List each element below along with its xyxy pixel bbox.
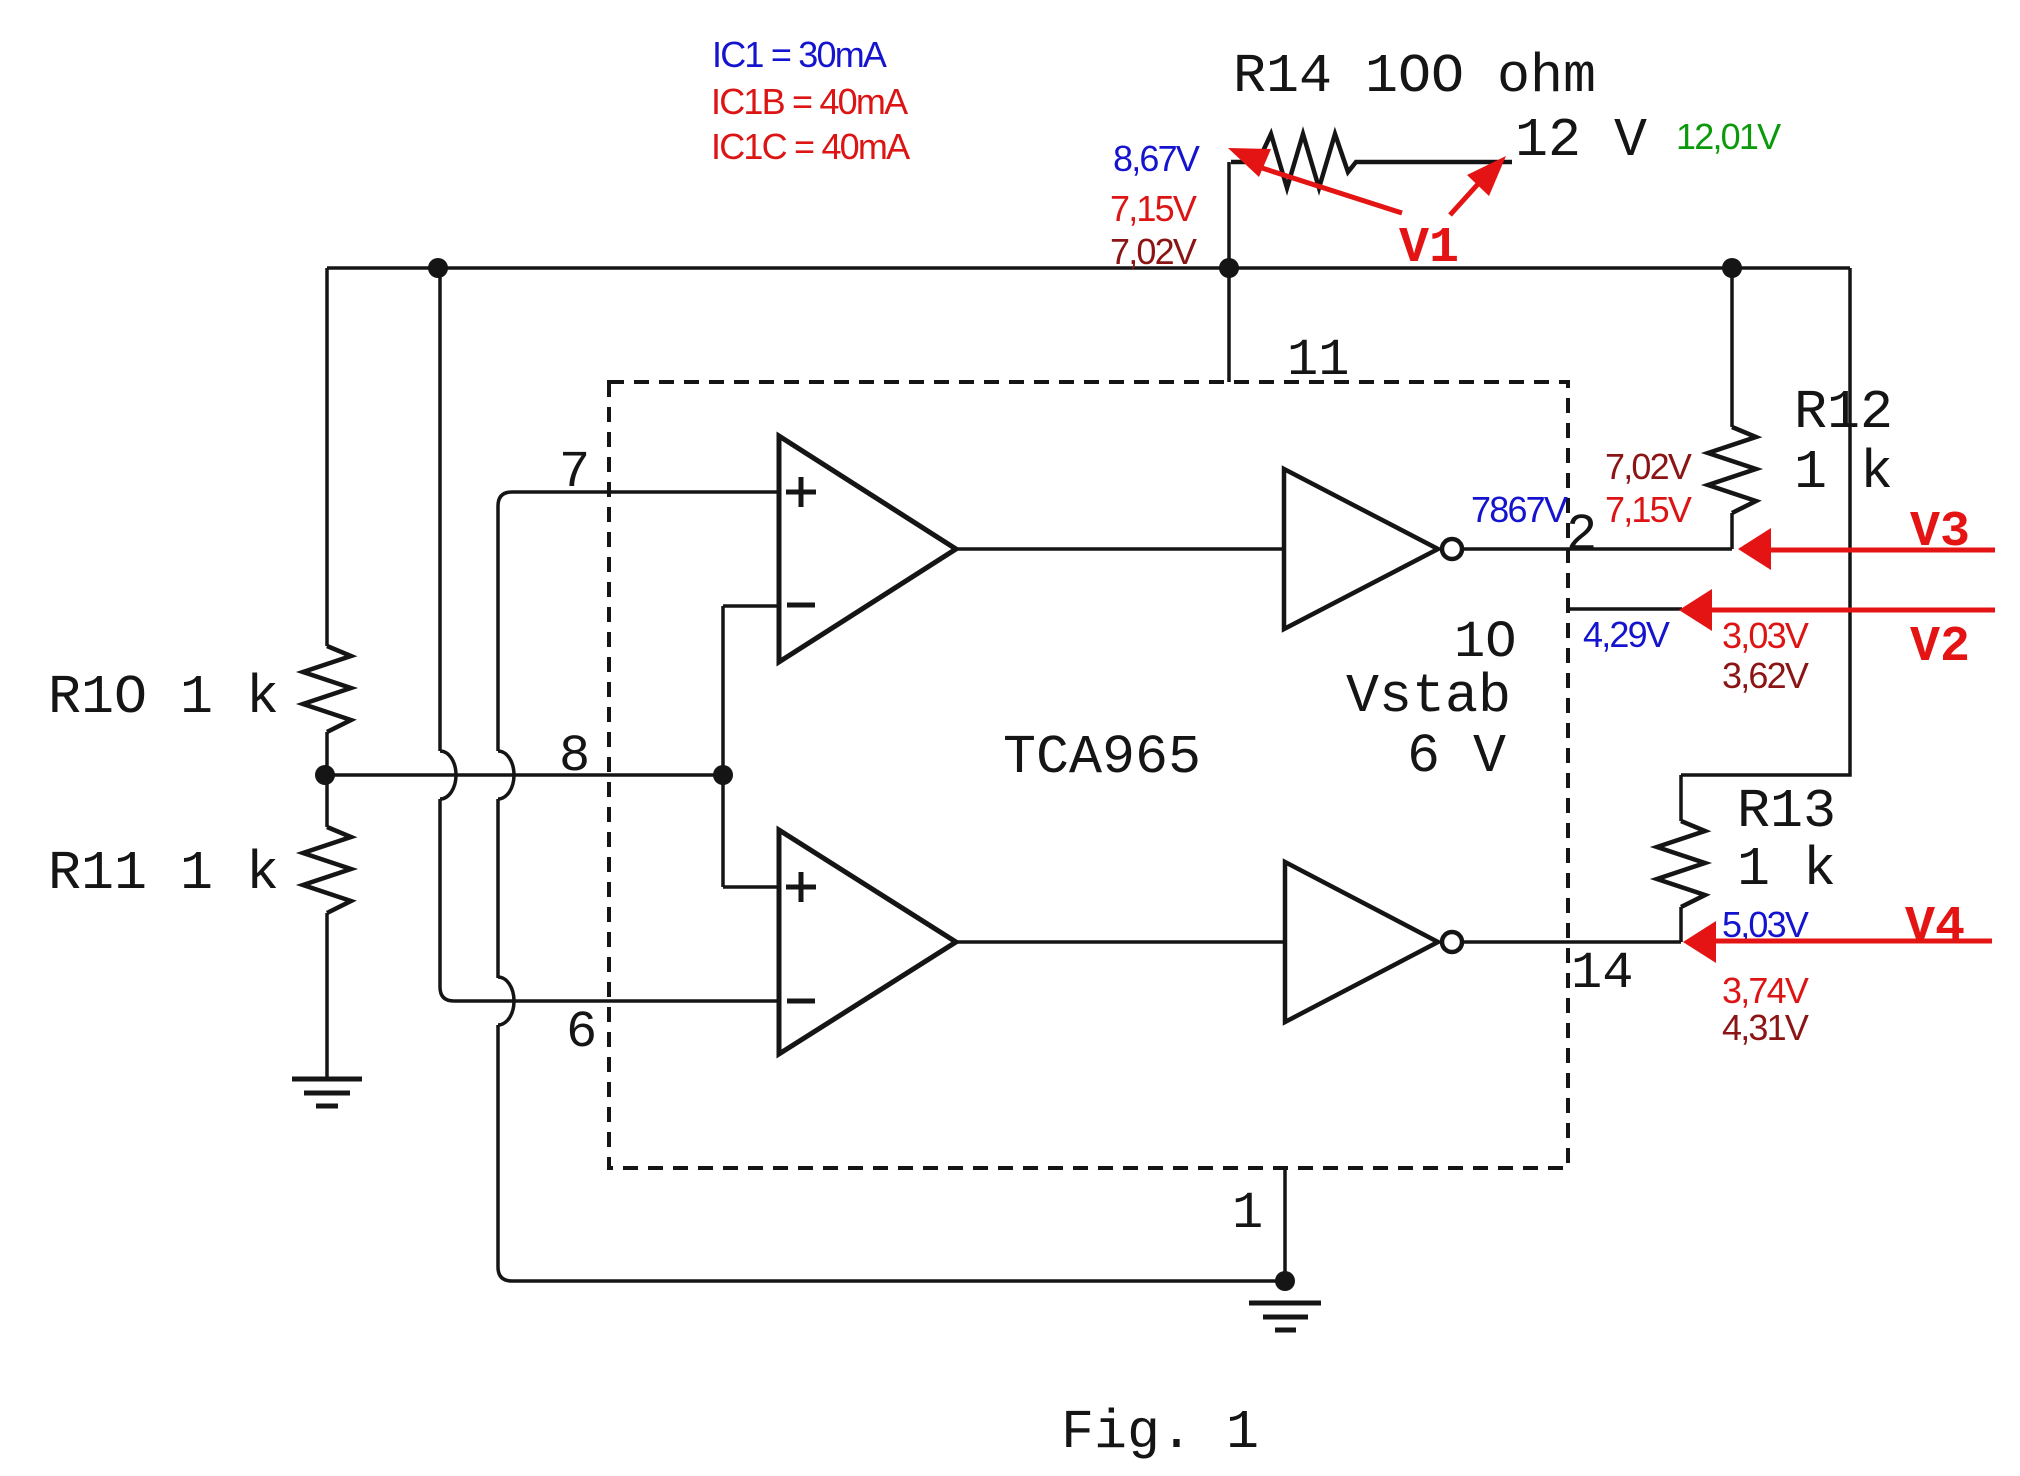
svg-text:7,02V: 7,02V (1110, 231, 1197, 272)
wire R13 top lead (1679, 775, 1683, 821)
node bottom ground junction dot (1275, 1271, 1295, 1291)
ground at pin 1 (1249, 1303, 1321, 1330)
wire vertical3 upper segment (496, 506, 500, 751)
resistor R11 (303, 827, 351, 913)
node top rail junction dot left (428, 258, 448, 278)
wire pin 7 horizontal (498, 492, 779, 506)
svg-text:3,03V: 3,03V (1722, 615, 1809, 656)
svg-text:2: 2 (1566, 506, 1597, 565)
svg-text:R1O 1 k: R1O 1 k (48, 666, 279, 729)
svg-text:4,29V: 4,29V (1583, 614, 1670, 655)
wire R12 bottom lead (1730, 513, 1734, 549)
svg-text:3,62V: 3,62V (1722, 655, 1809, 696)
node top rail junction dot pin11 (1219, 258, 1239, 278)
wire right rail down to R13 (1681, 268, 1850, 775)
svg-text:R13: R13 (1737, 780, 1836, 843)
node pin8 inner junction dot (713, 765, 733, 785)
wire upper comparator minus input stub (723, 604, 779, 608)
V4 measurement arrow (1713, 939, 1992, 944)
wire vertical2 upper segment (438, 268, 442, 751)
wire left rail top to R10 (325, 268, 329, 646)
svg-text:V2: V2 (1910, 619, 1970, 676)
svg-text:V3: V3 (1910, 504, 1970, 561)
wire comparator C output (956, 940, 1285, 944)
svg-text:12,01V: 12,01V (1676, 116, 1781, 157)
svg-text:7,15V: 7,15V (1605, 489, 1692, 530)
wire vertical2 lower to pin6 corner (440, 799, 454, 1001)
resistor R13 (1657, 821, 1705, 907)
svg-text:V1: V1 (1399, 220, 1459, 277)
V2 measurement arrow (1710, 608, 1995, 613)
wire R13 bottom lead (1679, 907, 1683, 942)
svg-text:TCA965: TCA965 (1003, 726, 1201, 789)
svg-text:IC1C = 40mA: IC1C = 40mA (711, 126, 910, 167)
svg-text:7867V: 7867V (1471, 489, 1568, 530)
wire vertical3 middle segment (496, 799, 500, 978)
svg-text:1O: 1O (1454, 613, 1516, 672)
wire top +12V rail (327, 266, 1850, 270)
V1 measurement arrows (1262, 168, 1478, 215)
wire pin 14 output (1462, 940, 1681, 944)
wire comparator A output (956, 547, 1284, 551)
svg-text:IC1B = 40mA: IC1B = 40mA (711, 81, 908, 122)
svg-text:1 k: 1 k (1737, 838, 1836, 901)
svg-text:8,67V: 8,67V (1113, 138, 1200, 179)
wire vertical3 hop over pin8 wire (498, 751, 514, 799)
svg-text:V4: V4 (1905, 899, 1965, 956)
wire R11 bottom to ground (325, 913, 329, 1078)
inverter B (upper) (1284, 469, 1462, 629)
svg-text:4,31V: 4,31V (1722, 1007, 1809, 1048)
wire vertical3 hop over pin6 wire (498, 977, 514, 1025)
wire R10 bottom to R11 top (325, 732, 329, 827)
inverter D (lower) (1285, 862, 1462, 1022)
wire inner vertical pin8 node (721, 606, 725, 887)
svg-text:IC1 = 30mA: IC1 = 30mA (712, 34, 887, 75)
node top rail junction dot R12 (1722, 258, 1742, 278)
svg-text:R12: R12 (1794, 381, 1893, 444)
wire vertical2 hop over pin8 wire (440, 751, 456, 799)
V3 measurement arrow (1770, 548, 1995, 553)
wire pin 10 Vstab stub (1568, 607, 1682, 611)
svg-text:1: 1 (1232, 1184, 1263, 1243)
node R10/R11 divider junction dot (315, 765, 335, 785)
wire pin 1 to ground (1283, 1169, 1287, 1281)
wire pin 2 output (1462, 547, 1732, 551)
resistor R10 (303, 646, 351, 732)
svg-text:R14 1OO ohm: R14 1OO ohm (1233, 45, 1596, 108)
resistor R12 (1708, 427, 1756, 513)
svg-text:6: 6 (566, 1003, 597, 1062)
IC TCA965 dashed box (609, 382, 1568, 1168)
svg-text:Vstab: Vstab (1346, 665, 1511, 728)
svg-text:11: 11 (1287, 331, 1349, 390)
svg-text:14: 14 (1571, 944, 1633, 1003)
svg-text:R11 1 k: R11 1 k (48, 842, 279, 905)
svg-text:3,74V: 3,74V (1722, 970, 1809, 1011)
wire lower comparator plus input stub (723, 885, 779, 889)
resistor R14 with leads (1227, 162, 1231, 382)
svg-text:7,02V: 7,02V (1605, 446, 1692, 487)
wire bottom rail to pin1 ground (512, 1279, 1285, 1283)
op-amp comparator C (lower) (779, 830, 956, 1054)
svg-text:12 V: 12 V (1515, 109, 1647, 172)
svg-text:8: 8 (559, 727, 590, 786)
wire vertical3 to bottom rail (498, 1025, 512, 1281)
wire pin 6 horizontal (454, 999, 779, 1003)
svg-text:Fig. 1: Fig. 1 (1061, 1401, 1259, 1464)
svg-text:7,15V: 7,15V (1110, 188, 1197, 229)
svg-text:7: 7 (559, 443, 590, 502)
svg-text:1 k: 1 k (1794, 441, 1893, 504)
op-amp comparator A (upper) (779, 436, 956, 662)
wire pin 8 horizontal from divider (325, 773, 723, 777)
svg-text:6 V: 6 V (1407, 725, 1506, 788)
ground under R11 (292, 1079, 362, 1106)
wire R12 top lead (1730, 268, 1734, 427)
